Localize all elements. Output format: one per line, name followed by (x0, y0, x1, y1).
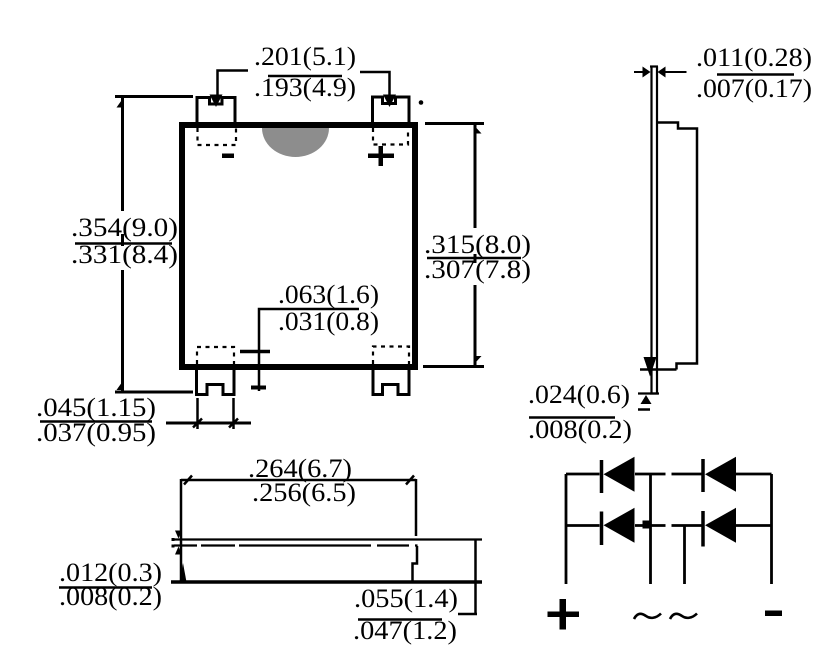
dimension .201(5.1)/.193(4.9) top (218, 71, 390, 99)
dimension .264(6.7)/.256(6.5) (181, 479, 416, 482)
left extension / body edge (180, 479, 183, 583)
dimension .012(0.3)/.008(0.2) strip thickness (175, 531, 182, 539)
dimension .024(0.6)/.008(0.2) standoff (640, 368, 677, 371)
dashed pad outline top-right (373, 128, 408, 145)
pin 2 tab (top-right) (373, 97, 410, 124)
dashed pad outline top-left (198, 128, 237, 145)
stray dot artifact (419, 100, 424, 105)
svg-text:.037(0.95): .037(0.95) (36, 418, 156, 447)
wire: + rail (565, 474, 568, 584)
pin 3 tab (bottom-left) (197, 367, 235, 395)
molded body profile (side view) (658, 123, 698, 370)
svg-text:.007(0.17): .007(0.17) (696, 74, 812, 103)
diode D4 (bottom-right) (703, 508, 736, 547)
wire: top left segments (566, 473, 666, 476)
right extension (415, 479, 418, 536)
svg-text:.031(0.8): .031(0.8) (278, 307, 379, 336)
svg-text:.256(6.5): .256(6.5) (252, 478, 356, 507)
diode D3 (bottom-left) (602, 508, 635, 545)
dimension .354(9.0)/.331(8.4) left (115, 97, 193, 393)
wire: - rail (770, 474, 773, 584)
gray index notch (semicircle) (262, 128, 329, 157)
pin 4 tab (bottom-right) (373, 367, 409, 395)
junction blob (643, 521, 650, 529)
svg-text:.008(0.2): .008(0.2) (59, 582, 162, 611)
diode D2 (top-right) (703, 457, 736, 492)
plus polarity mark (368, 146, 394, 166)
svg-text:.011(0.28): .011(0.28) (696, 43, 812, 72)
dashed pad outline bottom-right (373, 347, 409, 365)
svg-text:.008(0.2): .008(0.2) (528, 415, 632, 444)
svg-text:.047(1.2): .047(1.2) (353, 616, 457, 645)
dashed pad outline bottom-left (197, 347, 234, 364)
dimension .055(1.4)/.047(1.2) height (474, 540, 477, 615)
terminal + (548, 599, 580, 630)
svg-text:.331(8.4): .331(8.4) (71, 240, 178, 269)
body outline (bottom view) (413, 546, 418, 581)
lead strip seen edge-on (174, 540, 482, 546)
wire: ~1 lead (649, 474, 652, 584)
dimension .011(0.28)/.007(0.17) lead thickness (634, 71, 687, 73)
lead strip (side view) (650, 67, 658, 395)
package body outline (top view) (182, 125, 415, 367)
svg-text:.201(5.1): .201(5.1) (254, 42, 356, 71)
svg-text:.063(1.6): .063(1.6) (278, 280, 379, 309)
svg-text:.193(4.9): .193(4.9) (254, 73, 356, 102)
terminal ~2 (670, 614, 697, 620)
svg-text:.024(0.6): .024(0.6) (528, 380, 630, 409)
terminal - (765, 611, 782, 617)
terminal ~1 (634, 614, 661, 620)
diode D1 (top-left) (602, 457, 635, 493)
dimension .045(1.15)/.037(0.95) bottom-left (166, 398, 251, 429)
pin 1 tab (top-left) (197, 98, 235, 124)
svg-text:.055(1.4): .055(1.4) (354, 584, 458, 613)
minus polarity mark (222, 154, 234, 159)
wire: bottom right segments (672, 524, 772, 527)
wire: ~2 lead (683, 526, 686, 585)
svg-text:.307(7.8): .307(7.8) (424, 255, 531, 284)
wire: top right segments (672, 473, 772, 476)
svg-text:.354(9.0): .354(9.0) (71, 213, 178, 242)
dimension .315(8.0)/.307(7.8) right (423, 124, 484, 367)
wire: bottom left segments (566, 524, 666, 527)
